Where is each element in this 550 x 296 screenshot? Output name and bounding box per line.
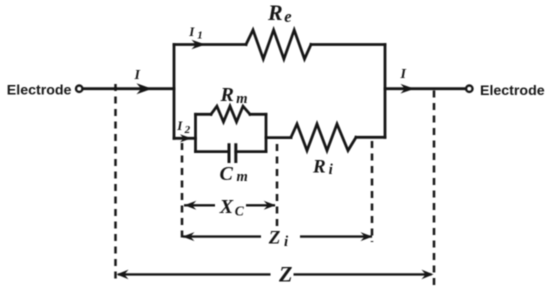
svg-text:Electrode: Electrode bbox=[7, 82, 72, 98]
svg-text:C: C bbox=[235, 204, 245, 219]
current arrow I left bbox=[137, 83, 153, 94]
wire top branch right bbox=[311, 43, 385, 46]
current arrow I2 bbox=[180, 134, 192, 142]
svg-text:i: i bbox=[329, 162, 334, 178]
svg-text:Electrode: Electrode bbox=[480, 83, 545, 99]
svg-text:Z: Z bbox=[278, 262, 292, 287]
resistor Re zigzag bbox=[246, 30, 311, 59]
RC box right edge bbox=[265, 114, 268, 151]
dashed line Zi right bbox=[371, 141, 374, 242]
left electrode terminal bbox=[76, 86, 82, 92]
svg-text:I: I bbox=[400, 67, 407, 82]
wire top branch left bbox=[174, 43, 246, 46]
Z measure left arrow bbox=[118, 273, 271, 275]
Zi measure left arrow bbox=[183, 235, 261, 237]
svg-text:R: R bbox=[312, 157, 326, 178]
svg-text:R: R bbox=[267, 0, 283, 25]
RC box left edge bbox=[194, 114, 197, 151]
svg-text:m: m bbox=[237, 169, 248, 185]
svg-text:Z: Z bbox=[268, 228, 281, 249]
svg-text:C: C bbox=[220, 163, 234, 185]
Zi measure right arrow bbox=[300, 235, 372, 237]
RC box top edge segments bbox=[196, 113, 267, 116]
wire bottom branch entry bbox=[174, 137, 196, 140]
dashed line Z right bbox=[433, 91, 436, 289]
Xc measure left arrow bbox=[184, 204, 215, 206]
svg-text:X: X bbox=[219, 196, 234, 218]
Xc measure right arrow bbox=[246, 204, 275, 206]
wire Ri to right vertical bbox=[356, 136, 385, 139]
dashed line Xc left bbox=[181, 143, 184, 243]
Z measure right arrow bbox=[294, 273, 432, 275]
svg-text:I: I bbox=[134, 68, 141, 83]
svg-text:m: m bbox=[236, 91, 247, 107]
svg-text:1: 1 bbox=[197, 29, 203, 41]
svg-text:i: i bbox=[284, 234, 289, 250]
wire box to Ri bbox=[266, 136, 291, 139]
capacitor Cm plates bbox=[229, 145, 236, 162]
wire left horizontal bbox=[83, 87, 174, 90]
RC box bottom edge segments bbox=[196, 150, 267, 153]
dashed line Z left bbox=[114, 84, 117, 283]
svg-text:e: e bbox=[284, 7, 291, 26]
current arrow I1 bbox=[192, 40, 206, 50]
wire right horizontal bbox=[385, 87, 466, 90]
svg-text:I: I bbox=[188, 24, 195, 39]
wire right vertical bbox=[384, 45, 387, 138]
resistor Rm zigzag bbox=[211, 106, 250, 122]
current arrow I right bbox=[401, 84, 415, 94]
svg-text:2: 2 bbox=[184, 124, 191, 136]
svg-text:I: I bbox=[176, 118, 183, 133]
resistor Ri zigzag bbox=[291, 124, 356, 151]
svg-text:R: R bbox=[220, 84, 234, 106]
dashed line Xc right bbox=[276, 144, 279, 228]
wire left vertical bbox=[173, 45, 176, 139]
right electrode terminal bbox=[466, 86, 472, 92]
